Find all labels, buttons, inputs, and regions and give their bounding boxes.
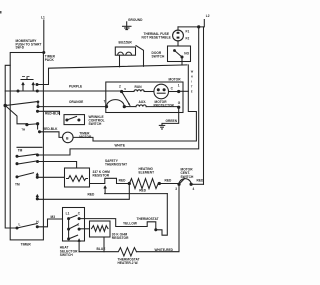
svg-text:v: v [124,87,126,91]
svg-text:RED: RED [139,188,147,192]
wire buzzer lead [119,55,121,67]
wire door NO stub [181,57,183,65]
timer pack box [10,53,43,240]
wire protector to terminal 1 [169,91,179,93]
svg-text:v: v [128,102,130,106]
svg-text:E: E [191,90,193,94]
svg-text:RED: RED [88,193,96,197]
node white label vertical [191,70,194,94]
wire green ground lead [162,107,179,125]
wire to 337 box top [38,162,77,169]
label momentary push to start [16,39,42,50]
svg-text:SW-D: SW-D [16,46,25,50]
svg-text:GROUND: GROUND [128,18,143,22]
svg-text:PACK: PACK [45,58,55,62]
wire purple to motor terminal 2 [37,90,121,92]
svg-text:TM: TM [18,149,23,153]
ground chassis top [123,18,144,29]
svg-text:BUZZER: BUZZER [119,40,133,44]
wire L1 drop [43,20,45,53]
timer cam contacts left cluster [4,104,6,106]
junction heating element left [128,182,130,184]
svg-text:MOTOR: MOTOR [169,78,182,82]
svg-text:L1: L1 [66,211,70,215]
node aux contact [123,106,125,108]
wire yellow through thermostat [79,194,167,236]
motor terminal 1 [178,90,180,92]
wire red to cent switch [159,183,179,185]
svg-text:SWITCH: SWITCH [60,253,74,257]
svg-text:RESISTOR: RESISTOR [112,236,129,240]
resistor 337 K ohm [65,168,90,187]
svg-text:NO: NO [184,52,189,56]
svg-text:SWITCH: SWITCH [89,122,103,126]
ground motor [159,124,164,126]
svg-text:L1: L1 [41,16,45,20]
wire to 337 box left [37,176,64,178]
buzzer switch arm [136,46,144,67]
wire timer row to heater circuit [36,198,38,200]
timer cam switch group TM [17,146,42,148]
svg-text:7: 7 [104,100,106,104]
junction timer red-blk contact [37,110,39,112]
junction timer motor contact [39,131,41,133]
svg-text:RED: RED [165,179,173,183]
svg-text:F1: F1 [186,30,190,34]
svg-text:THERMOSTAT: THERMOSTAT [137,217,159,221]
wire red tee [105,193,168,195]
label DOOR SWITCH [152,51,166,59]
timer bottom switch [16,227,18,229]
svg-text:2: 2 [119,84,121,88]
motor protector [154,84,169,99]
svg-text:H: H [191,75,193,79]
svg-text:HEATER-2 W.: HEATER-2 W. [118,261,139,265]
junction L2 / neutral riser [198,26,200,28]
motor box [106,82,183,113]
junction L1 / timer box [43,52,45,54]
svg-text:WHITE: WHITE [115,143,126,147]
node L1 [41,16,45,53]
junction timer orange contact [37,106,39,108]
wire white neutral bus [93,65,196,141]
wire neutral right riser [38,27,199,155]
wire buzzer feed from timer [36,84,38,86]
svg-text:WHITE-RED: WHITE-RED [155,248,174,252]
svg-text:1: 1 [178,84,180,88]
svg-text:RED: RED [119,179,127,183]
svg-text:L2: L2 [206,14,210,18]
heat selector switch [63,208,85,242]
label THERMAL FUSE NOT RESETTABLE [142,32,171,40]
svg-text:GREEN: GREEN [166,119,178,123]
junction thermostat output [155,229,157,231]
svg-text:YELLOW: YELLOW [123,222,137,226]
svg-text:4: 4 [193,187,195,191]
motor terminal G [178,106,180,108]
label SAFETY THERMOSTAT [105,159,127,167]
svg-text:PURPLE: PURPLE [69,84,82,88]
motor terminal 7 [105,106,107,108]
thermal fuse F1-F2 [173,27,190,46]
wire motor terminal 1 branch [179,90,189,92]
motor centrifugal switch [181,168,195,179]
edge mark [0,11,2,14]
svg-text:ORANGE: ORANGE [69,100,83,104]
wire red-blk to timer motor [40,132,63,138]
svg-text:F2: F2 [186,37,190,41]
motor terminal 2 [121,90,123,92]
buzzer coil box [115,47,135,55]
wire L2 top [178,20,204,27]
svg-text:TM: TM [22,128,25,131]
svg-text:SWITCH: SWITCH [152,55,166,59]
svg-text:RESISTOR: RESISTOR [93,174,110,178]
resistor 30 K ohm [90,221,111,237]
wire terminal3 drop to heater thermostat [137,184,180,251]
svg-text:TM: TM [15,183,20,187]
junction heating element right [158,182,160,184]
resistor thermostat heater 2W [79,248,136,256]
svg-text:L: L [19,222,21,226]
svg-text:3: 3 [175,187,177,191]
door switch terminal NO [181,56,183,58]
svg-text:ELEMENT: ELEMENT [139,171,155,175]
svg-text:THERMOSTAT: THERMOSTAT [105,163,127,167]
svg-text:M3: M3 [51,215,56,219]
svg-text:TIMER: TIMER [21,243,32,247]
svg-text:RED-BLK: RED-BLK [43,127,58,131]
door switch contact arm [174,50,176,52]
svg-text:RED-BLK: RED-BLK [45,111,60,115]
svg-text:RUN: RUN [135,85,143,89]
motor switch arm [122,92,130,106]
wrinkle control switch SW box [64,115,85,125]
svg-text:NOT RESETTABLE: NOT RESETTABLE [142,36,171,40]
svg-text:SWITCH: SWITCH [181,175,195,179]
svg-text:2: 2 [78,222,80,226]
timer motor B [63,132,74,143]
safety thermostat symbol [90,178,130,183]
door switch box [168,46,191,62]
svg-text:AUX.: AUX. [139,100,147,104]
svg-text:RED: RED [197,179,205,183]
heating element [139,167,155,175]
wire L2 bus [203,27,205,184]
momentary push-to-start switch [5,76,38,92]
wire left return [5,65,17,228]
wire overpass arc [107,100,125,107]
wire orange to motor terminal 7 [38,106,107,108]
wire red-blk to wrinkle switch [38,111,60,114]
